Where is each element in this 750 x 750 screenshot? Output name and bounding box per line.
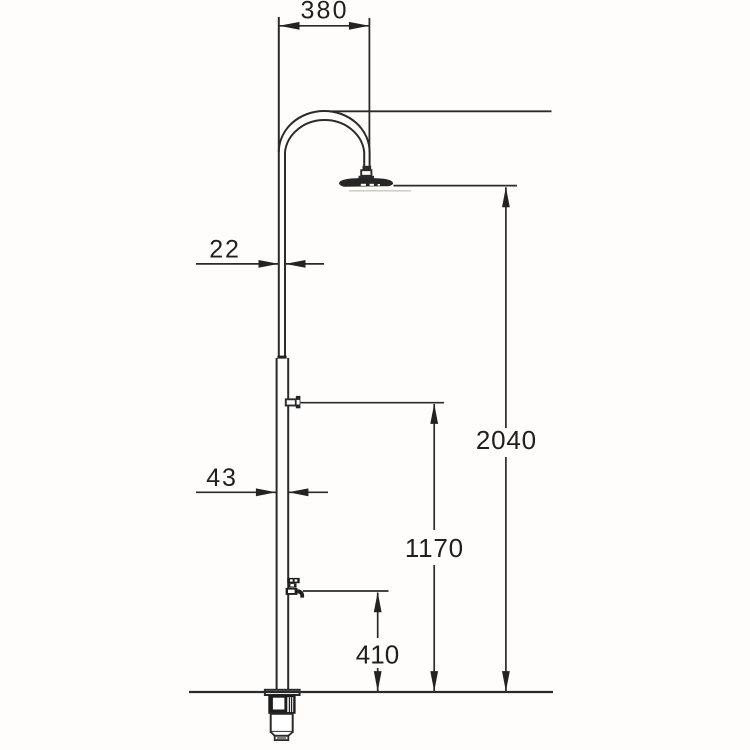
svg-text:2040: 2040 [476, 425, 537, 455]
svg-text:43: 43 [206, 464, 237, 492]
svg-text:1170: 1170 [405, 533, 464, 563]
svg-text:22: 22 [209, 236, 240, 264]
svg-text:410: 410 [356, 640, 399, 670]
svg-text:380: 380 [300, 0, 348, 25]
